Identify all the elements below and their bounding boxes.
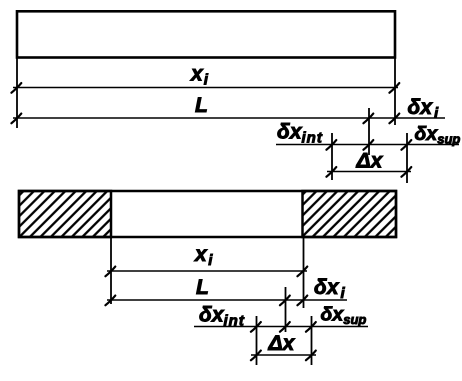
dimension line L and baseline of delta x_i (bottom) [105, 296, 347, 306]
dimension line Delta x (top) [326, 167, 411, 177]
extension line upper limit (top) [406, 133, 408, 183]
top bar outline [17, 11, 395, 57]
svg-text:L: L [195, 94, 208, 117]
top bar right extension line [394, 58, 396, 126]
baseline of delta x_int and delta x_sup (top) [276, 140, 459, 150]
baseline of delta x_int and delta x_sup (bottom) [194, 322, 368, 332]
svg-text:Δx: Δx [268, 332, 296, 355]
extension line at nominal L end (top) [368, 108, 370, 155]
dimension line L and baseline of delta x_i (top) [11, 114, 445, 124]
right extension line (bottom) [303, 237, 305, 308]
extension line upper limit (bottom) [311, 316, 313, 365]
svg-text:L: L [196, 276, 209, 299]
extension line at nominal L end (bottom) [285, 287, 287, 332]
dimension line x_i (top) [11, 83, 399, 93]
extension line lower limit (bottom) [256, 316, 258, 365]
bottom bar outline [19, 191, 396, 237]
bottom bar right hatched section [303, 191, 397, 237]
dimension line x_i (bottom) [105, 267, 307, 277]
left extension line (bottom) [110, 237, 112, 304]
bottom bar left hatched section [19, 191, 111, 237]
svg-text:Δx: Δx [356, 150, 384, 173]
dimension line Delta x (bottom) [251, 351, 316, 361]
top bar left extension line [16, 58, 18, 129]
extension line lower limit (top) [331, 133, 333, 180]
